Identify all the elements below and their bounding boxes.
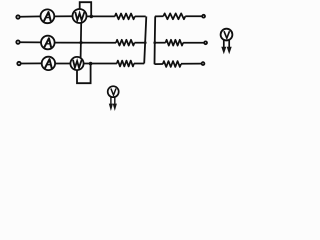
wire: W1 voltage-coil lead down to phase 2 <box>80 23 83 59</box>
wire: phase 3 terminal to ammeter A3 <box>21 62 42 64</box>
voltmeter V1 (portable, right) <box>221 29 233 41</box>
ammeter A3 <box>42 57 55 70</box>
resistor R6 <box>163 61 181 67</box>
wire: R6 to phase 3 output terminal <box>181 63 201 65</box>
resistor R3 <box>117 61 134 67</box>
star-point bus of load bank 2 <box>154 16 157 64</box>
wire: A3 to wattmeter W2 <box>55 63 70 65</box>
resistor R2 <box>116 40 134 46</box>
wattmeter W2 <box>70 57 83 70</box>
wire: phase 1 terminal to ammeter A1 <box>20 15 41 17</box>
junction dot: W2 voltage tap on phase 3 <box>89 62 93 66</box>
wire: A1 to wattmeter W1 <box>54 15 72 17</box>
junction dot: voltage lead tap on phase 2 <box>79 41 82 44</box>
resistor R4 <box>163 13 185 19</box>
wire: W1 to resistor R1 <box>87 15 115 17</box>
wire: bus 2 to resistor R5 <box>155 42 166 44</box>
wire: W2 to resistor R3 <box>84 63 117 65</box>
V2 probe lead left with arrow <box>109 97 113 111</box>
resistor R1 <box>115 13 135 19</box>
terminal: phase 2 input <box>16 40 19 43</box>
ammeter A1 <box>41 9 55 23</box>
terminal: phase 1 output <box>202 15 205 18</box>
wire: bus 2 to resistor R4 <box>155 15 164 17</box>
terminal: phase 3 output <box>202 62 205 65</box>
wire: W2 voltage-coil loop to phase 3 tap <box>77 64 91 83</box>
wire: A2 to resistor R2 <box>55 42 117 44</box>
resistor R5 <box>166 40 184 46</box>
wire: R3 to star bus 1 <box>134 63 144 65</box>
voltmeter V2 (portable, bottom) <box>108 86 119 97</box>
wire: R5 to phase 2 output terminal <box>183 42 204 44</box>
ammeter A2 <box>41 36 55 50</box>
wire: phase 2 terminal to ammeter A2 <box>20 41 41 43</box>
terminal: phase 2 output <box>204 41 207 44</box>
junction dot: R5 at bus 2 <box>153 41 156 44</box>
V2 probe lead right with arrow <box>113 97 117 111</box>
wire: R1 to star bus 1 <box>135 15 146 17</box>
junction dot: W1 voltage tap on phase 1 <box>90 15 94 19</box>
V1 probe lead left with arrow <box>221 40 226 54</box>
wire: R2 to star bus 1 <box>135 42 146 44</box>
junction dot: R2 at bus 1 <box>144 41 147 44</box>
star-point bus of load bank 1 <box>144 16 146 63</box>
wire: W1 voltage-coil loop to phase 1 tap <box>80 2 92 15</box>
V1 probe lead right with arrow <box>227 40 232 54</box>
terminal: phase 3 input <box>17 62 20 65</box>
wattmeter W1 <box>73 9 87 23</box>
terminal: phase 1 input <box>16 15 19 18</box>
wire: R4 to phase 1 output terminal <box>185 15 201 17</box>
wire: bus 2 to resistor R6 <box>155 63 163 65</box>
